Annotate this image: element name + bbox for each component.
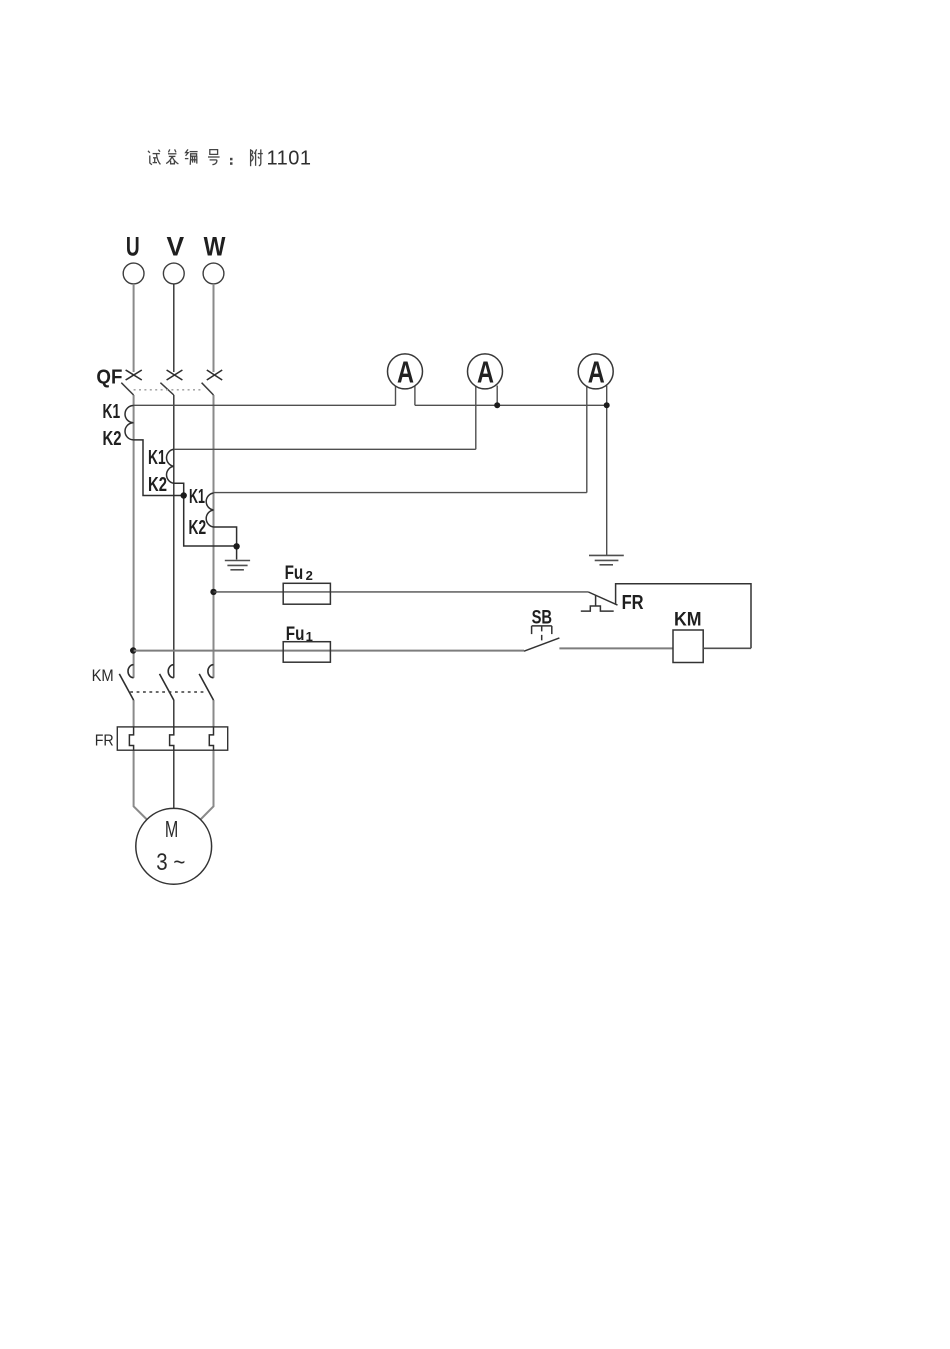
svg-text:2: 2	[306, 568, 313, 583]
svg-text:KM: KM	[92, 666, 114, 685]
svg-text:3 ~: 3 ~	[156, 849, 185, 876]
svg-text:A: A	[397, 355, 414, 390]
svg-text:K2: K2	[103, 428, 122, 450]
svg-text:FR: FR	[95, 732, 114, 749]
svg-text:A: A	[477, 355, 494, 390]
svg-text:U: U	[126, 231, 140, 261]
svg-text:Fu: Fu	[286, 624, 305, 645]
svg-text:QF: QF	[96, 366, 122, 388]
svg-text:K1: K1	[148, 447, 166, 469]
svg-text:KM: KM	[674, 610, 702, 631]
svg-text:M: M	[165, 816, 178, 842]
svg-text:1101: 1101	[267, 148, 312, 170]
svg-text:K1: K1	[189, 486, 205, 508]
svg-text:A: A	[588, 355, 605, 390]
svg-text:Fu: Fu	[285, 563, 304, 584]
svg-text:FR: FR	[622, 592, 644, 614]
svg-text:K1: K1	[103, 401, 121, 423]
svg-text:1: 1	[306, 629, 313, 644]
svg-text:K2: K2	[189, 517, 207, 539]
svg-text:V: V	[167, 231, 185, 261]
svg-text:W: W	[204, 231, 226, 261]
svg-text:K2: K2	[148, 474, 167, 496]
